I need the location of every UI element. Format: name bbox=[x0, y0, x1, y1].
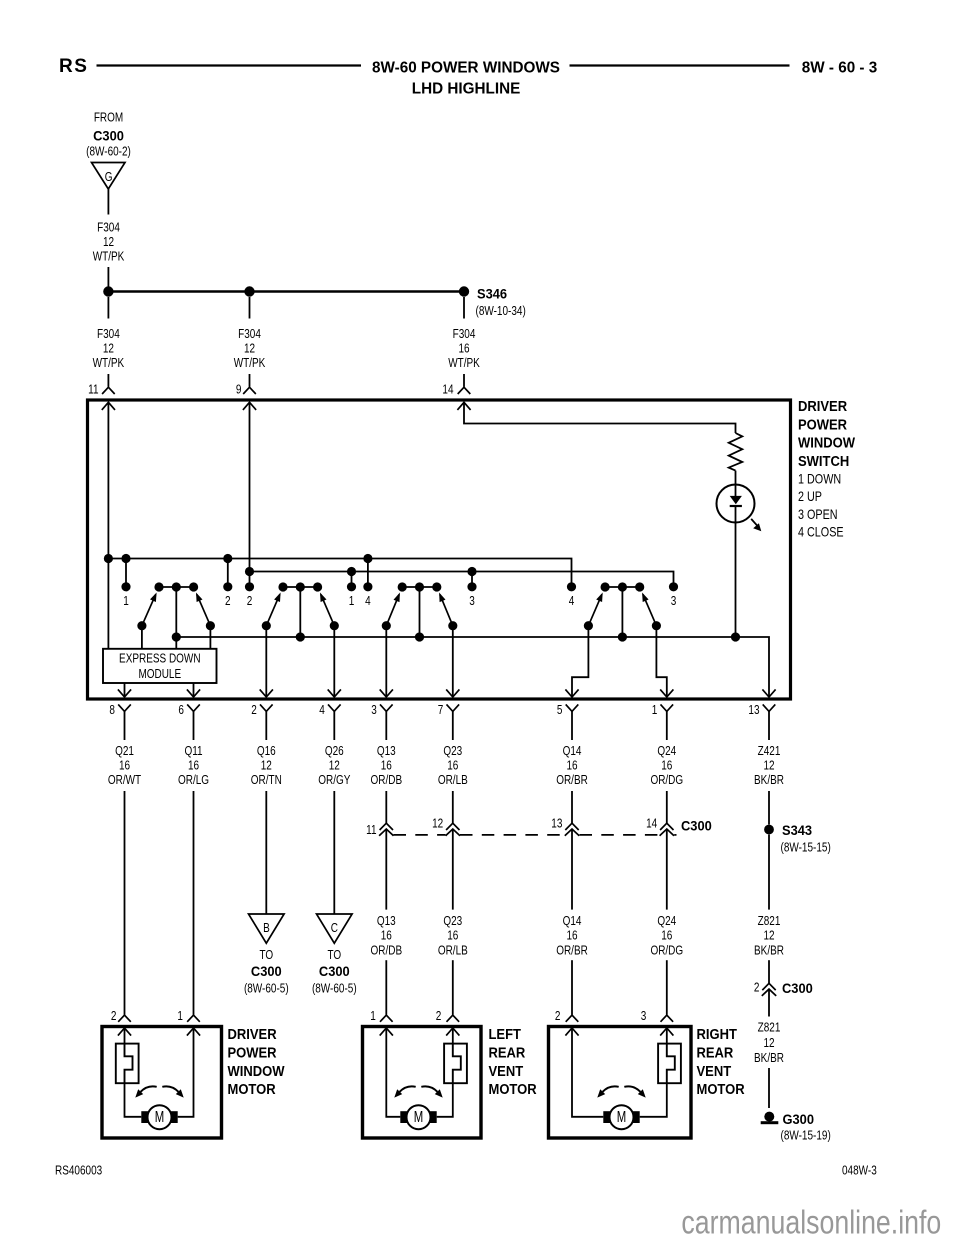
svg-text:3: 3 bbox=[371, 704, 377, 717]
pin 11 male half arrow bbox=[102, 402, 115, 410]
pin 6 arrow at box edge bbox=[187, 689, 200, 697]
driver power window motor motor M bbox=[141, 1111, 148, 1123]
svg-text:14: 14 bbox=[646, 818, 657, 831]
svg-text:14: 14 bbox=[442, 384, 453, 397]
svg-text:MODULE: MODULE bbox=[138, 668, 181, 681]
connector half pin 9 bbox=[243, 387, 256, 394]
svg-text:F304: F304 bbox=[238, 328, 261, 341]
bus A wire bbox=[108, 559, 571, 587]
svg-text:EXPRESS DOWN: EXPRESS DOWN bbox=[119, 653, 201, 666]
svg-text:FROM: FROM bbox=[94, 112, 123, 125]
svg-text:WT/PK: WT/PK bbox=[448, 357, 480, 370]
connector C300 pin 2 chevrons bbox=[762, 983, 775, 990]
left rear vent motor rotation arrows bbox=[400, 1086, 416, 1091]
right rear vent motor pin 3 connector half bbox=[661, 1015, 674, 1022]
wire Q21 to driver motor bbox=[124, 791, 126, 1015]
wire to C300 x=666.8 bbox=[666, 791, 668, 823]
svg-text:12: 12 bbox=[103, 236, 114, 249]
svg-text:BK/BR: BK/BR bbox=[754, 944, 784, 957]
switch sw1 right pivot wire to module bbox=[209, 626, 211, 649]
svg-text:16: 16 bbox=[119, 760, 130, 773]
driver power window switch box bbox=[88, 400, 791, 699]
switch sw1 left pivot wire to module bbox=[141, 626, 143, 649]
contact stub 1b junction bbox=[347, 567, 356, 576]
svg-text:16: 16 bbox=[661, 930, 672, 943]
connector half pin 6 below box bbox=[187, 704, 200, 711]
junction common bus sw1 bbox=[172, 632, 181, 641]
wire below pin 7 bbox=[452, 711, 454, 740]
wire below pin 6 bbox=[193, 711, 195, 740]
splice junction middle bbox=[244, 286, 254, 296]
svg-text:(8W-60-5): (8W-60-5) bbox=[244, 983, 289, 996]
svg-text:TO: TO bbox=[327, 949, 341, 962]
svg-text:1: 1 bbox=[349, 595, 355, 608]
svg-text:C300: C300 bbox=[93, 128, 124, 144]
right rear vent motor pin 3 arrow inside bbox=[660, 1028, 673, 1036]
svg-text:4 CLOSE: 4 CLOSE bbox=[798, 524, 844, 539]
switch left vent left contact bbox=[398, 582, 407, 591]
switch left vent right pivot bbox=[448, 621, 457, 630]
pin 7 arrow at box edge bbox=[446, 689, 459, 697]
wire below pin 8 bbox=[124, 711, 126, 740]
right rear vent motor box bbox=[549, 1027, 692, 1139]
wire below C300 x=572 bbox=[571, 829, 573, 910]
pin 3 arrow at box edge bbox=[380, 689, 393, 697]
wire to switch pin 9 bbox=[249, 374, 251, 387]
svg-text:Q26: Q26 bbox=[325, 745, 344, 758]
left rear vent motor pin 2 arrow inside bbox=[446, 1028, 459, 1036]
express down module box bbox=[103, 649, 217, 683]
svg-text:MOTOR: MOTOR bbox=[697, 1080, 745, 1097]
svg-text:4: 4 bbox=[365, 595, 371, 608]
svg-text:Q23: Q23 bbox=[443, 915, 462, 928]
resistor for illumination LED bbox=[729, 433, 743, 471]
svg-text:8: 8 bbox=[109, 704, 115, 717]
pin 5 arrow at box edge bbox=[565, 689, 578, 697]
right rear vent motor wire breaker to motor bbox=[640, 1083, 667, 1117]
svg-text:G: G bbox=[105, 171, 113, 184]
svg-text:2 UP: 2 UP bbox=[798, 489, 822, 504]
contact stub 3b dot bbox=[669, 582, 678, 591]
left rear vent motor motor M bbox=[400, 1111, 407, 1123]
svg-text:OR/DG: OR/DG bbox=[650, 944, 683, 957]
driver power window motor pin 1 arrow inside bbox=[187, 1028, 200, 1036]
wire sw2 left pivot to pin 2 bbox=[265, 626, 267, 697]
wire Z821 to C300 pin 2 bbox=[768, 960, 770, 983]
left rear vent motor box bbox=[363, 1027, 482, 1139]
svg-text:M: M bbox=[155, 1108, 164, 1125]
driver power window motor rotation arrows bbox=[141, 1086, 157, 1091]
svg-text:1: 1 bbox=[652, 704, 658, 717]
left rear vent motor left wire to motor bbox=[386, 1028, 400, 1117]
svg-text:Q16: Q16 bbox=[257, 745, 276, 758]
svg-text:OR/LB: OR/LB bbox=[438, 774, 468, 787]
switch driver window left pivot bbox=[137, 621, 146, 630]
switch driver window wiper common wire bbox=[175, 587, 177, 637]
svg-text:8W - 60 - 3: 8W - 60 - 3 bbox=[802, 59, 878, 76]
svg-text:6: 6 bbox=[178, 704, 184, 717]
svg-text:4: 4 bbox=[569, 595, 575, 608]
junction common bus sw4 bbox=[618, 632, 627, 641]
svg-text:C: C bbox=[331, 922, 338, 935]
pin 14 wire to resistor bbox=[464, 402, 736, 433]
switch left vent center contact bbox=[415, 582, 424, 591]
wire drop from splice x=464 bbox=[463, 297, 465, 319]
svg-text:12: 12 bbox=[763, 930, 774, 943]
svg-text:1: 1 bbox=[370, 1010, 376, 1023]
svg-text:1 DOWN: 1 DOWN bbox=[798, 471, 841, 486]
C300 dashed connector line bbox=[394, 834, 446, 836]
LED diode triangle bbox=[730, 496, 742, 504]
svg-text:OR/LG: OR/LG bbox=[178, 774, 209, 787]
connector half pin 4 below box bbox=[328, 704, 341, 711]
switch right vent contact bar bbox=[605, 586, 640, 588]
switch right vent right contact bbox=[635, 582, 644, 591]
svg-text:2: 2 bbox=[436, 1010, 442, 1023]
svg-text:REAR: REAR bbox=[489, 1044, 526, 1061]
svg-text:12: 12 bbox=[103, 343, 114, 356]
svg-text:Z821: Z821 bbox=[758, 915, 781, 928]
ground G300 symbol bbox=[764, 1112, 774, 1122]
module output wire pin 6 bbox=[193, 683, 195, 697]
wire below C300 x=666.8 bbox=[666, 829, 668, 910]
wire Q16 to triangle B bbox=[265, 791, 267, 914]
LED cathode bar bbox=[730, 505, 742, 507]
right rear vent motor pin 2 connector half bbox=[566, 1015, 579, 1022]
svg-text:13: 13 bbox=[748, 704, 759, 717]
wire below pin 3 bbox=[385, 711, 387, 740]
switch driver window right pivot bbox=[206, 621, 215, 630]
connector C300 pin 11 chevrons bbox=[380, 823, 393, 830]
switch sw1 wiper wire to module bbox=[175, 637, 177, 649]
svg-text:M: M bbox=[617, 1108, 626, 1125]
svg-text:SWITCH: SWITCH bbox=[798, 452, 849, 469]
wire below pin 5 bbox=[571, 711, 573, 740]
wire sw4 right pivot to pin 1 bbox=[656, 626, 666, 697]
svg-text:B: B bbox=[263, 922, 270, 935]
wire drop from splice x=249.5 bbox=[249, 297, 251, 319]
svg-text:(8W-10-34): (8W-10-34) bbox=[476, 305, 526, 318]
svg-text:OR/TN: OR/TN bbox=[251, 774, 282, 787]
left rear vent motor circuit breaker bbox=[444, 1044, 467, 1084]
pin 2 arrow at box edge bbox=[260, 689, 273, 697]
contact stub 1 junction bbox=[121, 554, 130, 563]
driver power window motor right wire to motor bbox=[178, 1028, 194, 1117]
svg-text:2: 2 bbox=[251, 704, 257, 717]
svg-text:Q23: Q23 bbox=[443, 745, 462, 758]
svg-text:2: 2 bbox=[111, 1010, 117, 1023]
svg-text:12: 12 bbox=[763, 760, 774, 773]
wire to switch pin 11 bbox=[107, 374, 109, 387]
driver power window motor pin 2 connector half bbox=[118, 1015, 131, 1022]
svg-text:OR/BR: OR/BR bbox=[556, 774, 588, 787]
svg-text:16: 16 bbox=[381, 760, 392, 773]
svg-text:WT/PK: WT/PK bbox=[234, 357, 266, 370]
svg-text:POWER: POWER bbox=[798, 416, 847, 433]
off-page connector triangle B bbox=[249, 914, 285, 943]
connector half pin 14 bbox=[458, 387, 471, 394]
wire below C300 pin 2 bbox=[768, 989, 770, 1016]
svg-text:3 OPEN: 3 OPEN bbox=[798, 507, 838, 522]
wire resistor to LED bbox=[735, 471, 737, 496]
switch right vent left pivot bbox=[584, 621, 593, 630]
pin 4 arrow at box edge bbox=[328, 689, 341, 697]
svg-text:M: M bbox=[414, 1108, 423, 1125]
svg-text:Z421: Z421 bbox=[758, 745, 781, 758]
svg-text:16: 16 bbox=[458, 343, 469, 356]
contact stub 4a wire bbox=[367, 559, 369, 587]
contact stub 1 wire bbox=[125, 559, 127, 587]
right rear vent motor rotation arrows bbox=[603, 1086, 619, 1091]
svg-text:Q14: Q14 bbox=[563, 745, 582, 758]
switch front passenger window wiper common wire bbox=[299, 587, 301, 637]
svg-text:12: 12 bbox=[763, 1037, 774, 1050]
wire below pin 1 bbox=[666, 711, 668, 740]
contact stub 3a junction bbox=[467, 567, 476, 576]
switch right vent left throw arrow bbox=[596, 593, 603, 603]
switch front passenger window right contact bbox=[313, 582, 322, 591]
switch right vent wiper common wire bbox=[621, 587, 623, 637]
switch front passenger window left pivot bbox=[262, 621, 271, 630]
switch front passenger window right pivot bbox=[330, 621, 339, 630]
switch driver window contact bar bbox=[159, 586, 194, 588]
svg-text:12: 12 bbox=[329, 760, 340, 773]
svg-text:OR/WT: OR/WT bbox=[108, 774, 141, 787]
left rear vent motor right wire bbox=[452, 1028, 454, 1044]
wire drop from splice x=108.4 bbox=[107, 297, 109, 319]
svg-text:2: 2 bbox=[225, 595, 231, 608]
wire Z821 to ground G300 bbox=[768, 1068, 770, 1108]
svg-text:WINDOW: WINDOW bbox=[798, 434, 856, 451]
svg-text:9: 9 bbox=[236, 384, 242, 397]
wire to motor x=666.8 bbox=[666, 960, 668, 1015]
switch front passenger window left contact bbox=[278, 582, 287, 591]
svg-text:5: 5 bbox=[557, 704, 563, 717]
switch driver window center contact bbox=[172, 582, 181, 591]
off-page connector triangle C bbox=[317, 914, 353, 943]
svg-text:048W-3: 048W-3 bbox=[842, 1165, 877, 1178]
svg-text:POWER: POWER bbox=[228, 1044, 277, 1061]
svg-text:MOTOR: MOTOR bbox=[228, 1080, 276, 1097]
switch left vent left throw arrow bbox=[394, 593, 400, 603]
contact stub 4a junction bbox=[363, 554, 372, 563]
svg-text:3: 3 bbox=[671, 595, 677, 608]
driver power window motor pin 1 connector half bbox=[187, 1015, 200, 1022]
pin 14 male half arrow bbox=[457, 402, 470, 410]
svg-text:MOTOR: MOTOR bbox=[489, 1080, 537, 1097]
wire Q26 to triangle C bbox=[333, 791, 335, 914]
connector C300 pin 14 chevrons bbox=[660, 823, 673, 830]
contact stub 2b dot bbox=[245, 582, 254, 591]
switch front passenger window left throw arrow bbox=[274, 593, 281, 603]
pin 1 arrow at box edge bbox=[660, 689, 673, 697]
right rear vent motor pin 2 arrow inside bbox=[565, 1028, 578, 1036]
switch driver window left contact bbox=[154, 582, 163, 591]
svg-text:VENT: VENT bbox=[697, 1062, 732, 1079]
wire below pin 4 bbox=[333, 711, 335, 740]
wire sw3 left pivot to pin 3 bbox=[385, 626, 387, 697]
pin 9 wire to bus B bbox=[249, 402, 251, 572]
connector C300 pin 12 chevrons bbox=[446, 823, 459, 830]
wire to switch pin 14 bbox=[463, 374, 465, 387]
header left rule bbox=[97, 64, 362, 66]
svg-text:BK/BR: BK/BR bbox=[754, 774, 784, 787]
svg-text:1: 1 bbox=[177, 1010, 183, 1023]
pin 8 arrow at box edge bbox=[118, 689, 131, 697]
connector half pin 11 bbox=[102, 387, 115, 394]
wire to motor x=386.3 bbox=[385, 960, 387, 1015]
switch left vent contact bar bbox=[402, 586, 437, 588]
svg-text:C300: C300 bbox=[319, 964, 350, 980]
switch left vent wiper common wire bbox=[419, 587, 421, 637]
contact stub 4a dot bbox=[363, 582, 372, 591]
connector half pin 2 below box bbox=[260, 704, 273, 711]
svg-text:RS406003: RS406003 bbox=[55, 1165, 102, 1178]
contact stub 1 dot bbox=[121, 582, 130, 591]
svg-text:C300: C300 bbox=[251, 964, 282, 980]
svg-text:Q13: Q13 bbox=[377, 745, 396, 758]
driver power window motor box bbox=[102, 1027, 222, 1139]
svg-text:(8W-15-19): (8W-15-19) bbox=[781, 1130, 831, 1143]
svg-text:WT/PK: WT/PK bbox=[93, 251, 125, 264]
svg-text:Z821: Z821 bbox=[758, 1022, 781, 1035]
driver power window motor left wire bbox=[124, 1028, 126, 1044]
contact stub 3a dot bbox=[467, 582, 476, 591]
switch right vent left contact bbox=[601, 582, 610, 591]
svg-text:LEFT: LEFT bbox=[489, 1025, 522, 1042]
left rear vent motor pin 2 connector half bbox=[447, 1015, 460, 1022]
switch right vent right pivot bbox=[652, 621, 661, 630]
svg-text:16: 16 bbox=[661, 760, 672, 773]
junction bus B pin 9 bbox=[245, 567, 254, 576]
right rear vent motor right wire bbox=[666, 1028, 668, 1044]
switch common bus wire bbox=[176, 637, 769, 697]
svg-text:OR/LB: OR/LB bbox=[438, 944, 468, 957]
svg-text:11: 11 bbox=[88, 384, 98, 397]
svg-text:TO: TO bbox=[259, 949, 273, 962]
svg-text:3: 3 bbox=[469, 595, 475, 608]
svg-text:(8W-60-2): (8W-60-2) bbox=[86, 146, 131, 159]
svg-text:(8W-60-5): (8W-60-5) bbox=[312, 983, 357, 996]
svg-text:G300: G300 bbox=[783, 1112, 814, 1128]
svg-text:13: 13 bbox=[551, 818, 562, 831]
wire Z421 to splice S343 bbox=[768, 791, 770, 825]
svg-text:RIGHT: RIGHT bbox=[697, 1025, 738, 1042]
switch front passenger window center contact bbox=[296, 582, 305, 591]
LED light arrow bbox=[751, 519, 758, 526]
LED wire to common bus bbox=[735, 506, 737, 637]
svg-text:OR/DB: OR/DB bbox=[370, 944, 402, 957]
svg-text:3: 3 bbox=[641, 1010, 647, 1023]
switch driver window right contact bbox=[189, 582, 198, 591]
switch right vent center contact bbox=[618, 582, 627, 591]
wire below pin 13 bbox=[768, 711, 770, 740]
splice S346 bbox=[459, 286, 469, 296]
svg-text:2: 2 bbox=[247, 595, 253, 608]
switch left vent right throw arrow bbox=[439, 593, 445, 603]
pin 13 arrow at box edge bbox=[762, 689, 775, 697]
switch right vent right throw arrow bbox=[642, 593, 649, 603]
svg-text:Q11: Q11 bbox=[184, 745, 202, 758]
left rear vent motor pin 1 connector half bbox=[380, 1015, 393, 1022]
svg-text:16: 16 bbox=[188, 760, 199, 773]
off-page connector triangle G bbox=[92, 163, 126, 190]
header right rule bbox=[570, 64, 790, 66]
connector half pin 7 below box bbox=[447, 704, 460, 711]
right rear vent motor motor M bbox=[603, 1111, 610, 1123]
wire to C300 x=386.3 bbox=[385, 791, 387, 823]
switch front passenger window right throw arrow bbox=[320, 593, 327, 603]
svg-text:4: 4 bbox=[319, 704, 325, 717]
svg-text:Q24: Q24 bbox=[657, 745, 676, 758]
wire sw4 left pivot to pin 5 bbox=[572, 626, 588, 697]
contact stub 3a wire bbox=[471, 572, 473, 587]
svg-text:(8W-15-15): (8W-15-15) bbox=[781, 842, 831, 855]
svg-text:carmanualsonline.info: carmanualsonline.info bbox=[681, 1205, 941, 1241]
svg-text:8W-60 POWER WINDOWS: 8W-60 POWER WINDOWS bbox=[372, 59, 560, 76]
right rear vent motor circuit breaker bbox=[658, 1044, 681, 1084]
wire into splice S346 bbox=[107, 267, 109, 287]
svg-text:S346: S346 bbox=[477, 286, 507, 302]
svg-text:16: 16 bbox=[447, 760, 458, 773]
svg-text:1: 1 bbox=[123, 595, 129, 608]
svg-text:F304: F304 bbox=[97, 328, 120, 341]
connector half pin 3 below box bbox=[380, 704, 393, 711]
switch left vent right contact bbox=[432, 582, 441, 591]
svg-text:16: 16 bbox=[566, 930, 577, 943]
LED circle bbox=[717, 485, 755, 523]
svg-text:OR/DG: OR/DG bbox=[650, 774, 683, 787]
svg-text:DRIVER: DRIVER bbox=[228, 1025, 277, 1042]
module output wire pin 8 bbox=[124, 683, 126, 697]
wire below C300 x=452.8 bbox=[452, 829, 454, 910]
wire Q11 to driver motor bbox=[193, 791, 195, 1015]
connector half pin 5 below box bbox=[566, 704, 579, 711]
svg-text:7: 7 bbox=[438, 704, 444, 717]
junction common bus sw2 bbox=[296, 632, 305, 641]
svg-text:RS: RS bbox=[59, 56, 88, 77]
svg-text:REAR: REAR bbox=[697, 1044, 734, 1061]
driver power window motor wire breaker to motor bbox=[125, 1083, 142, 1117]
splice S346 bus wire bbox=[108, 290, 464, 293]
wire to motor x=572 bbox=[571, 960, 573, 1015]
junction common bus sw3 bbox=[415, 632, 424, 641]
wire sw2 right pivot to pin 4 bbox=[333, 626, 335, 697]
contact stub 1b dot bbox=[347, 582, 356, 591]
svg-text:BK/BR: BK/BR bbox=[754, 1052, 784, 1065]
svg-text:Q13: Q13 bbox=[377, 915, 396, 928]
svg-text:OR/BR: OR/BR bbox=[556, 944, 588, 957]
wire to motor x=452.8 bbox=[452, 960, 454, 1015]
svg-text:OR/DB: OR/DB bbox=[370, 774, 402, 787]
svg-text:12: 12 bbox=[432, 818, 443, 831]
wire sw3 right pivot to pin 7 bbox=[452, 626, 454, 697]
pin 11 wire to express down module bbox=[107, 402, 109, 649]
switch driver window right throw arrow bbox=[196, 593, 203, 603]
left rear vent motor pin 1 arrow inside bbox=[380, 1028, 393, 1036]
contact stub 1b wire bbox=[351, 572, 353, 587]
contact stub 2a wire bbox=[227, 559, 229, 587]
connector half pin 13 below box bbox=[763, 704, 776, 711]
svg-text:F304: F304 bbox=[97, 222, 120, 235]
svg-text:F304: F304 bbox=[453, 328, 476, 341]
switch driver window left throw arrow bbox=[150, 593, 157, 603]
wire below splice S343 bbox=[768, 835, 770, 910]
svg-text:C300: C300 bbox=[782, 981, 813, 997]
svg-text:VENT: VENT bbox=[489, 1062, 524, 1079]
svg-text:WINDOW: WINDOW bbox=[228, 1062, 286, 1079]
driver power window motor circuit breaker bbox=[116, 1044, 139, 1084]
